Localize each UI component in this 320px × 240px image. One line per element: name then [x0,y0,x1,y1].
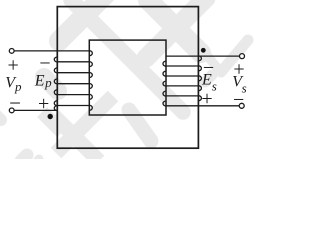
svg-text:+: + [8,55,19,77]
svg-text:−: − [9,91,21,115]
svg-text:−: − [39,52,50,74]
svg-text:Vp: Vp [5,75,22,94]
svg-text:+: + [38,93,49,115]
svg-text:Ep: Ep [34,73,52,90]
